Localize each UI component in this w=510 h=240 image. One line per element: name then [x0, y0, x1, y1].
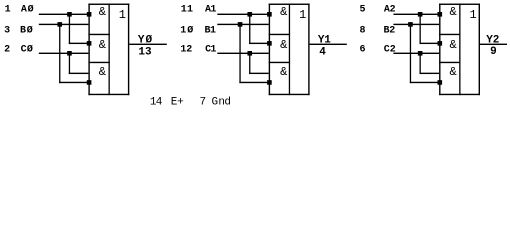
svg-text:3: 3 — [145, 46, 152, 58]
svg-text:2: 2 — [389, 25, 395, 36]
svg-text:A: A — [21, 5, 27, 16]
svg-text:G: G — [212, 96, 219, 108]
svg-text:8: 8 — [360, 25, 366, 36]
svg-text:&: & — [99, 5, 106, 19]
svg-text:3: 3 — [4, 25, 10, 36]
svg-text:1: 1 — [210, 45, 216, 56]
svg-text:1: 1 — [180, 25, 186, 36]
svg-text:4: 4 — [156, 96, 163, 108]
svg-text:5: 5 — [360, 5, 366, 16]
svg-text:2: 2 — [186, 45, 192, 56]
svg-text:&: & — [450, 38, 457, 52]
svg-text:1: 1 — [324, 35, 331, 47]
svg-text:1: 1 — [470, 8, 477, 22]
svg-text:&: & — [99, 38, 106, 52]
svg-text:Ø: Ø — [187, 24, 193, 36]
svg-text:6: 6 — [360, 45, 366, 56]
svg-text:Ø: Ø — [27, 44, 33, 56]
svg-text:B: B — [20, 25, 26, 36]
svg-text:&: & — [99, 65, 106, 79]
svg-text:&: & — [450, 5, 457, 19]
svg-text:C: C — [21, 45, 27, 56]
svg-text:Ø: Ø — [28, 4, 34, 16]
svg-text:Y: Y — [138, 35, 145, 47]
svg-text:Ø: Ø — [146, 35, 153, 47]
svg-text:7: 7 — [200, 96, 207, 108]
svg-text:2: 2 — [390, 45, 396, 56]
svg-text:4: 4 — [319, 46, 326, 58]
svg-text:&: & — [280, 5, 287, 19]
svg-text:9: 9 — [490, 46, 497, 58]
svg-text:&: & — [280, 65, 287, 79]
svg-text:1: 1 — [181, 5, 187, 16]
svg-text:2: 2 — [493, 35, 500, 47]
svg-text:+: + — [177, 96, 184, 108]
svg-text:d: d — [224, 96, 231, 108]
svg-text:Ø: Ø — [27, 24, 33, 36]
svg-text:1: 1 — [119, 8, 126, 22]
svg-text:&: & — [450, 65, 457, 79]
svg-text:1: 1 — [210, 25, 216, 36]
svg-text:1: 1 — [299, 8, 306, 22]
svg-text:2: 2 — [390, 5, 396, 16]
svg-text:2: 2 — [4, 45, 10, 56]
svg-text:1: 1 — [187, 5, 193, 16]
svg-text:&: & — [280, 38, 287, 52]
svg-text:1: 1 — [210, 5, 216, 16]
svg-text:1: 1 — [5, 5, 11, 16]
